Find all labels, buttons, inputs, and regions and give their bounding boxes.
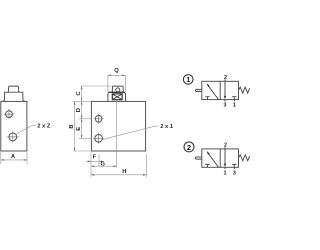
ext tick lower hole bbox=[79, 137, 92, 139]
Q extension lines bbox=[108, 75, 126, 92]
dimension C line bbox=[81, 86, 83, 101]
leader 2x1 bbox=[102, 126, 159, 140]
valve 1 blocked port T right bbox=[232, 97, 236, 100]
A arrows bbox=[1, 159, 27, 161]
valve 2 flow line with down arrow bbox=[224, 149, 226, 164]
valve 2 port 2 stub bbox=[224, 147, 226, 149]
valve 2 port 1 stub bbox=[224, 167, 226, 169]
valve 1 port 2 stub bbox=[224, 79, 226, 81]
valve 2 blocked port T left bbox=[205, 164, 209, 167]
valve 1 divider bbox=[219, 81, 221, 99]
valve body (front view) bbox=[91, 101, 145, 151]
svg-text:E: E bbox=[76, 127, 82, 131]
dimension F line with outside arrows bbox=[86, 160, 104, 162]
F arrows bbox=[88, 161, 102, 163]
X diagonals bbox=[113, 94, 122, 99]
dimension B line bbox=[74, 101, 76, 151]
crosshair lower bbox=[7, 131, 18, 142]
crosshair upper front bbox=[94, 114, 104, 124]
dimension Q line bbox=[108, 74, 126, 76]
valve body (side view) bbox=[1, 101, 27, 151]
hole lower (side) bbox=[9, 133, 17, 141]
leader 2xZ bbox=[16, 126, 36, 135]
crosshair upper bbox=[4, 109, 14, 119]
valve 1 flow line with down arrow bbox=[224, 81, 226, 96]
valve 2 port 3 stub bbox=[233, 167, 235, 169]
valve 2 spring bbox=[239, 155, 250, 161]
H right extension bbox=[145, 154, 147, 177]
valve 1 blocked port T left bbox=[205, 97, 209, 100]
roller pin circle bbox=[116, 88, 120, 92]
hole lower (front) bbox=[95, 135, 103, 143]
crosshair lower front bbox=[93, 133, 104, 144]
svg-text:B: B bbox=[69, 124, 75, 128]
plunger head (upper box) bbox=[112, 86, 123, 92]
Q arrows bbox=[108, 75, 126, 77]
svg-text:D: D bbox=[76, 108, 82, 112]
valve 2 diagonal with arrow bbox=[207, 152, 218, 167]
dimension D line bbox=[81, 101, 83, 118]
dimension G line bbox=[91, 165, 117, 167]
valve 1 diagonal with arrow bbox=[207, 84, 218, 99]
svg-text:3: 3 bbox=[233, 170, 236, 176]
bottom left extension line bbox=[90, 152, 92, 177]
valve 2 body bbox=[202, 149, 239, 167]
circled 1 bbox=[183, 75, 193, 85]
roller box with X bbox=[112, 94, 122, 100]
C extension line top bbox=[80, 85, 111, 87]
svg-text:F: F bbox=[93, 154, 97, 160]
roller housing (wide box) bbox=[108, 92, 126, 101]
F connecting line bbox=[91, 160, 99, 162]
body top extension left bbox=[73, 100, 91, 102]
dimension A line bbox=[1, 159, 27, 161]
dimension E line bbox=[81, 119, 83, 139]
B bottom extension bbox=[73, 150, 91, 152]
valve 1 spring bbox=[239, 87, 250, 93]
svg-text:2 x Z: 2 x Z bbox=[37, 124, 51, 130]
valve 2 blocked port T right bbox=[232, 164, 236, 167]
ext tick upper hole bbox=[79, 118, 92, 120]
svg-text:H: H bbox=[122, 169, 126, 175]
svg-text:3: 3 bbox=[224, 103, 227, 109]
E arrows bbox=[81, 119, 83, 139]
svg-text:2: 2 bbox=[224, 143, 227, 149]
valve 1 port 1 stub bbox=[233, 100, 235, 102]
G arrows bbox=[91, 165, 117, 167]
valve 2 plunger actuator bbox=[196, 157, 202, 159]
hole upper (front) bbox=[95, 116, 102, 123]
svg-text:2 x 1: 2 x 1 bbox=[160, 124, 174, 130]
svg-text:1: 1 bbox=[224, 170, 227, 176]
svg-text:G: G bbox=[101, 162, 106, 168]
svg-text:Q: Q bbox=[114, 68, 119, 74]
svg-text:2: 2 bbox=[187, 143, 191, 152]
top cap bbox=[8, 86, 18, 92]
valve 1 port 3 stub bbox=[224, 100, 226, 102]
hole upper (side) bbox=[6, 111, 13, 118]
D arrows bbox=[81, 101, 83, 118]
roller housing top edge thick bbox=[109, 91, 125, 93]
svg-text:2: 2 bbox=[224, 75, 227, 81]
A extension lines bbox=[1, 152, 27, 164]
dimension H line bbox=[91, 174, 146, 176]
B arrows bbox=[74, 101, 76, 151]
svg-text:1: 1 bbox=[233, 103, 236, 109]
valve 1 plunger actuator bbox=[196, 89, 202, 91]
H arrows bbox=[91, 174, 146, 176]
step collar bbox=[3, 92, 25, 101]
circled 2 bbox=[184, 142, 194, 152]
plunger stem axis line bbox=[116, 100, 118, 167]
F right extension bbox=[98, 154, 100, 166]
C arrows bbox=[81, 86, 83, 101]
valve 1 body bbox=[202, 81, 239, 99]
valve 2 divider bbox=[219, 149, 221, 167]
